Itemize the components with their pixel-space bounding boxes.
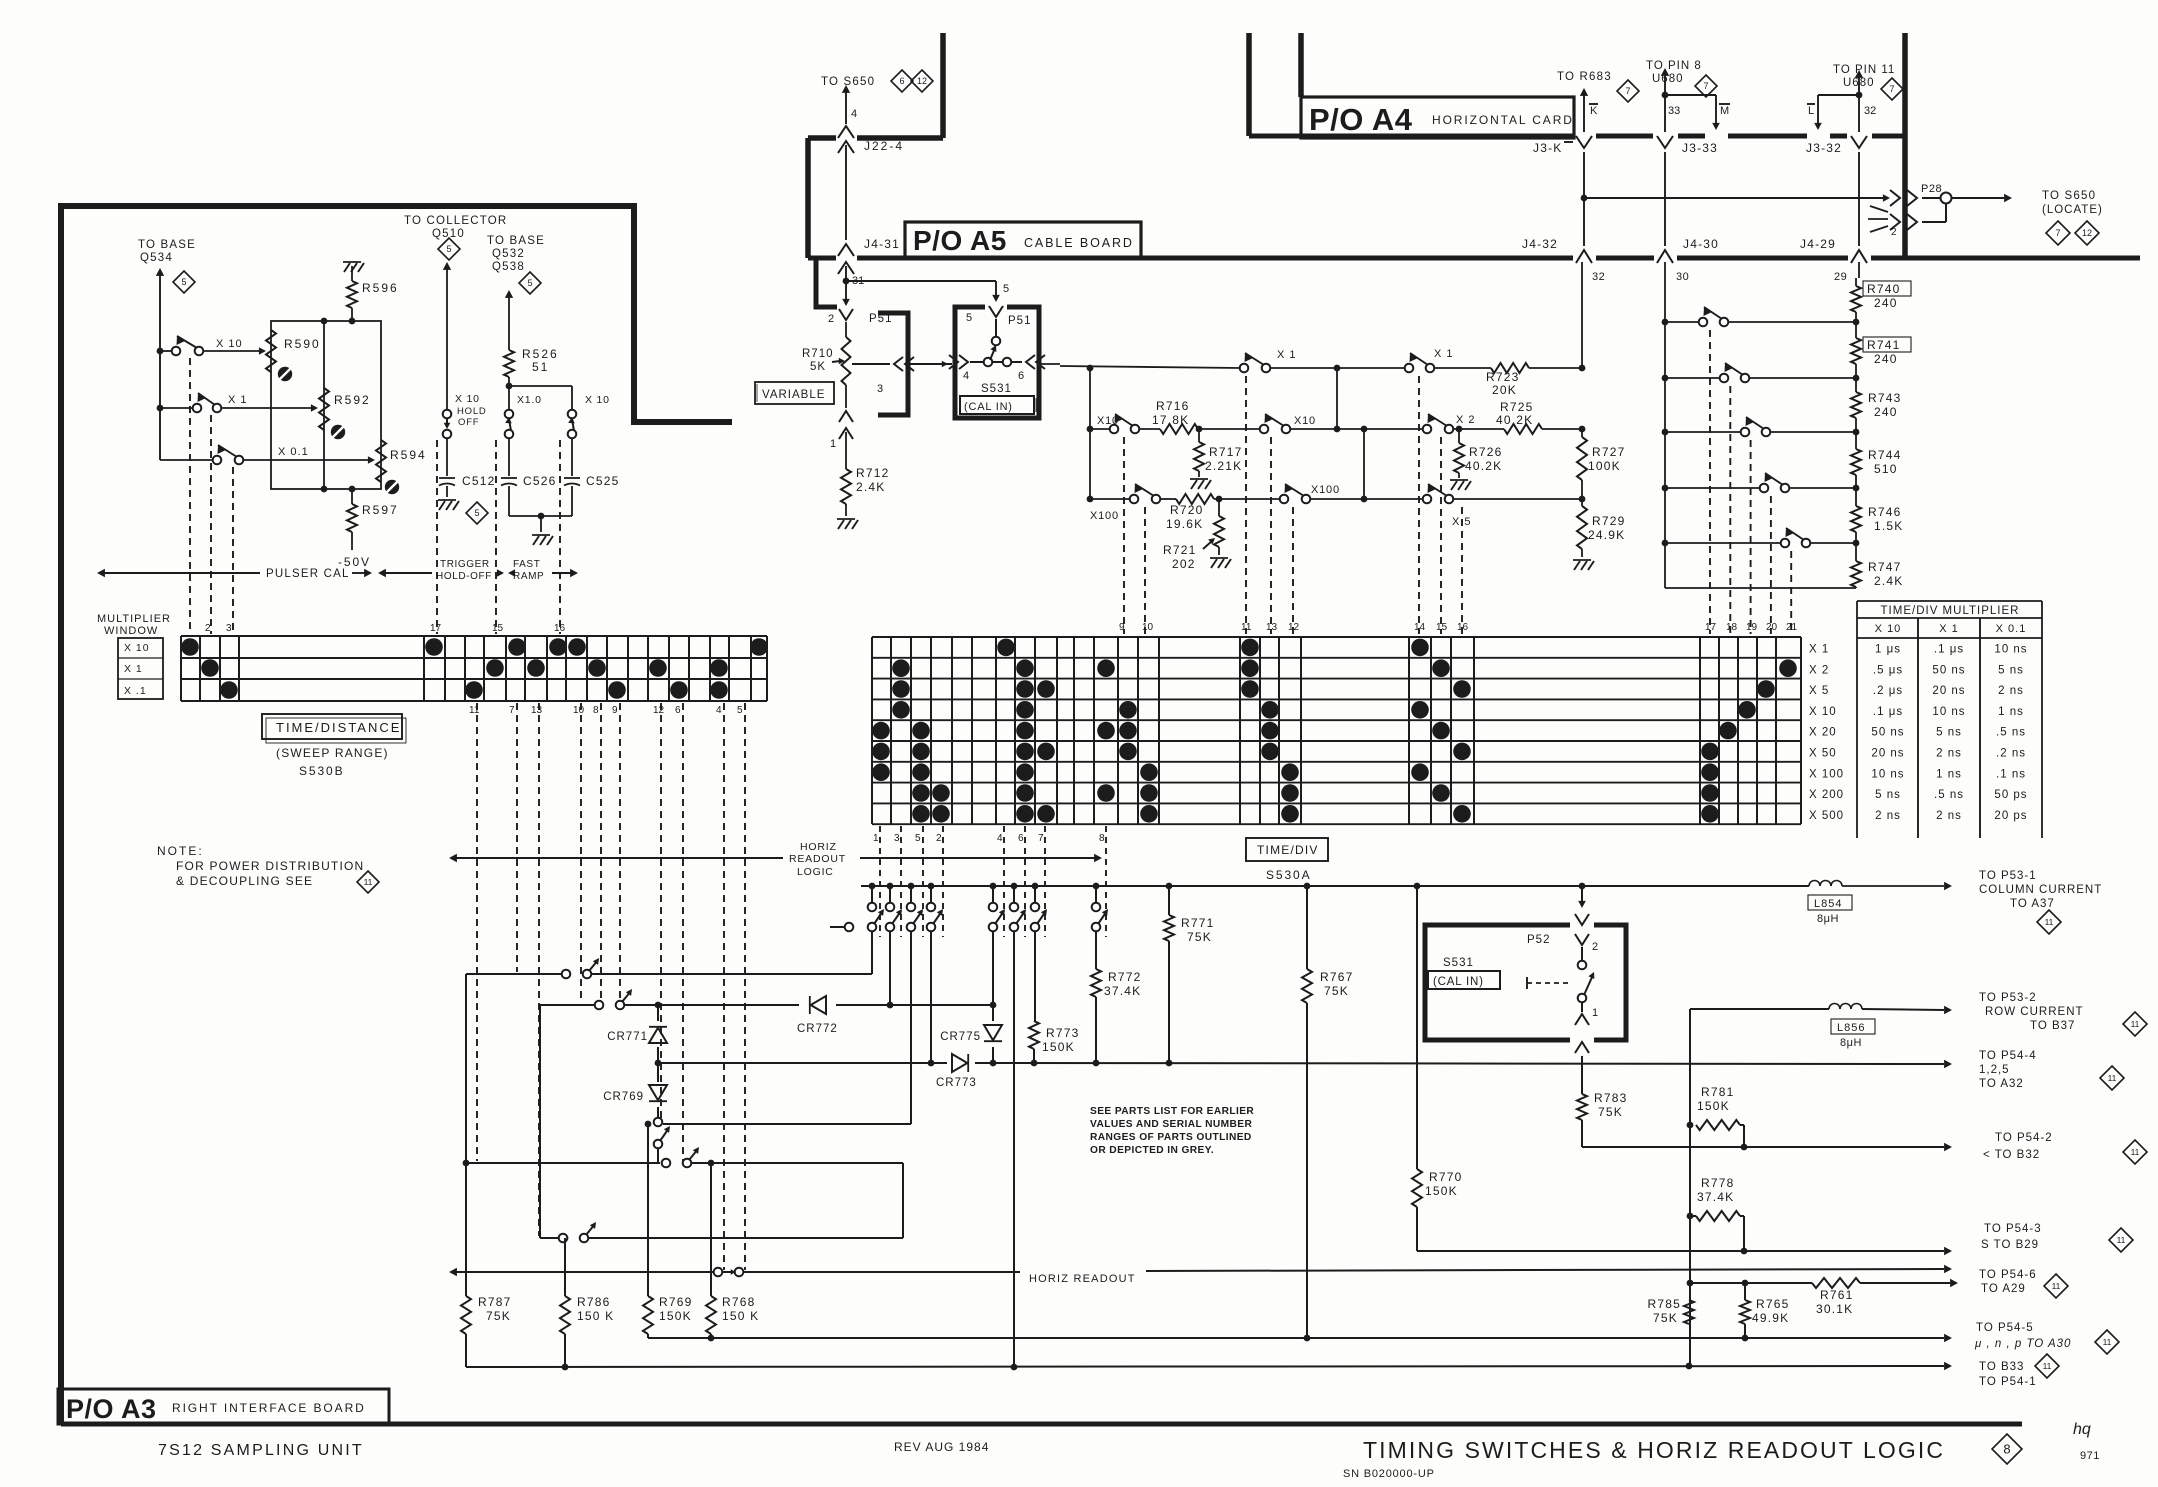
svg-text:20 ns: 20 ns — [1871, 748, 1904, 760]
svg-text:-50V: -50V — [338, 555, 371, 569]
svg-text:7: 7 — [1703, 81, 1708, 91]
svg-text:Q538: Q538 — [492, 261, 525, 273]
ground below C512 — [438, 500, 459, 510]
wire left column CR chain — [655, 1002, 662, 1021]
connector J3-33 — [1657, 136, 1718, 155]
svg-text:.2 ns: .2 ns — [1996, 748, 2026, 760]
wire horiz row B to CR772 — [540, 1002, 996, 1009]
svg-text:5: 5 — [966, 312, 972, 324]
cal in actuator dash — [1527, 977, 1572, 989]
svg-text:100K: 100K — [1588, 459, 1621, 473]
linkage dashes ladder 21 — [1790, 551, 1792, 634]
ground below R721 — [1210, 558, 1231, 568]
destination diamond 11 A30 — [2095, 1330, 2119, 1354]
svg-text:CR771: CR771 — [607, 1031, 648, 1043]
svg-text:TO P54-2: TO P54-2 — [1995, 1132, 2053, 1144]
title TIMING SWITCHES & HORIZ READOUT LOGIC — [1363, 1437, 1945, 1463]
svg-text:21: 21 — [1786, 622, 1798, 633]
wire Q534 rail — [156, 268, 164, 460]
svg-text:16: 16 — [1457, 622, 1469, 633]
resistor R712 — [841, 432, 890, 516]
svg-text:X 2: X 2 — [1456, 414, 1476, 426]
P/O A3 board border left and top — [61, 206, 732, 1424]
connector J4-31 — [838, 237, 900, 274]
resistor R787 — [461, 1295, 512, 1367]
svg-text:R761: R761 — [1820, 1288, 1854, 1302]
note diamond 11 — [357, 871, 379, 893]
svg-text:R744: R744 — [1868, 448, 1902, 462]
wire column current bus — [861, 882, 1952, 890]
svg-text:TO BASE: TO BASE — [138, 239, 196, 251]
svg-text:TO B33: TO B33 — [1979, 1361, 2024, 1373]
resistor R786 — [560, 1295, 614, 1370]
connector S531 pin 6 — [993, 355, 1045, 382]
svg-text:5: 5 — [1003, 283, 1009, 295]
svg-text:150 K: 150 K — [722, 1309, 759, 1323]
switch matrix S530A grid — [872, 637, 1801, 824]
svg-text:J4-32: J4-32 — [1522, 237, 1558, 251]
node TO P54-4 — [1979, 1050, 2037, 1090]
svg-text:20 ns: 20 ns — [1932, 685, 1965, 697]
range arrows fast ramp — [508, 559, 578, 582]
wire J3-33 to J4-30 vertical — [1664, 152, 1666, 246]
svg-text:2: 2 — [205, 623, 211, 634]
svg-text:R721: R721 — [1163, 543, 1197, 557]
potentiometer R592 — [319, 388, 371, 430]
label MULTIPLIER WINDOW — [97, 613, 171, 637]
label SN B020000-UP — [1343, 1468, 1435, 1480]
svg-text:REV AUG 1984: REV AUG 1984 — [894, 1440, 989, 1454]
matrix S530A top column numbers — [1119, 622, 1798, 633]
svg-text:R778: R778 — [1701, 1176, 1735, 1190]
ladder bottom wire — [1665, 587, 1856, 589]
svg-text:.1 μs: .1 μs — [1873, 706, 1903, 718]
svg-text:R526: R526 — [522, 347, 559, 361]
svg-text:P52: P52 — [1527, 934, 1550, 946]
wire col4 CR775 — [992, 931, 994, 1021]
switch X1 row1 left — [1240, 349, 1297, 372]
switch horiz readout — [714, 1268, 744, 1277]
label S531 CAL IN top — [960, 383, 1036, 414]
svg-text:X 10: X 10 — [1875, 623, 1902, 635]
potentiometer R710 — [802, 322, 851, 408]
svg-text:X 1: X 1 — [1939, 623, 1959, 635]
wiper arrow R710 — [832, 358, 845, 365]
svg-text:R740: R740 — [1867, 282, 1901, 296]
svg-text:L854: L854 — [1814, 898, 1842, 910]
svg-text:7S12 SAMPLING UNIT: 7S12 SAMPLING UNIT — [158, 1442, 364, 1459]
svg-text:19.6K: 19.6K — [1166, 517, 1203, 531]
wire R770 column — [1416, 886, 1418, 1169]
label VARIABLE — [755, 382, 834, 404]
linkage dashes ladder 18 — [1729, 386, 1731, 634]
destination diamond 11 B29 — [2109, 1228, 2133, 1252]
svg-text:X 1: X 1 — [228, 394, 248, 406]
resistor R778 — [1690, 1176, 1744, 1251]
resistor R767 — [1302, 969, 1354, 1341]
svg-text:(LOCATE): (LOCATE) — [2042, 204, 2103, 216]
wire Q510 column — [443, 262, 451, 410]
svg-text:20K: 20K — [1492, 383, 1517, 397]
svg-text:9: 9 — [612, 705, 618, 716]
svg-text:.5 μs: .5 μs — [1873, 664, 1903, 676]
P/O A5 cable board border staircase — [808, 33, 943, 258]
node TO BASE Q534 — [138, 239, 196, 264]
wire horiz row y1163 — [463, 1160, 903, 1238]
destination diamond 5 C512 — [466, 502, 488, 524]
svg-text:17: 17 — [1705, 622, 1717, 633]
svg-text:TO R683: TO R683 — [1557, 71, 1612, 83]
svg-text:X 5: X 5 — [1809, 685, 1829, 697]
svg-text:U680: U680 — [1843, 77, 1875, 89]
svg-text:R743: R743 — [1868, 391, 1902, 405]
svg-text:10 ns: 10 ns — [1932, 706, 1965, 718]
svg-text:202: 202 — [1172, 557, 1196, 571]
svg-text:12: 12 — [917, 76, 927, 86]
svg-text:30.1K: 30.1K — [1816, 1302, 1853, 1316]
svg-text:30: 30 — [1676, 271, 1689, 283]
svg-text:R771: R771 — [1181, 916, 1215, 930]
svg-text:COLUMN CURRENT: COLUMN CURRENT — [1979, 884, 2102, 896]
wire pin31 node — [828, 266, 864, 325]
svg-text:TO B37: TO B37 — [2030, 1020, 2075, 1032]
linkage dashes S530A col 8 — [1105, 826, 1107, 937]
svg-text:33: 33 — [1668, 105, 1680, 117]
matrix S530A bottom column numbers — [873, 833, 1105, 844]
resistor R783 — [1577, 1091, 1628, 1147]
multiplier window box — [118, 638, 163, 699]
svg-text:.2 μs: .2 μs — [1873, 685, 1903, 697]
label HORIZ READOUT — [1029, 1273, 1136, 1285]
linkage dashes multiplier 2 — [210, 415, 212, 634]
wire jumper M to J3-33 row — [1665, 95, 1730, 130]
destination diamond 11 B33 — [2035, 1354, 2059, 1378]
switch X10 row2 right — [1260, 414, 1316, 433]
svg-text:510: 510 — [1874, 462, 1898, 476]
svg-text:1: 1 — [1592, 1007, 1598, 1019]
svg-text:X 0.1: X 0.1 — [1996, 623, 2027, 635]
linkage dashes S530B col 10 — [580, 703, 582, 1003]
svg-text:X 10: X 10 — [124, 642, 150, 654]
destination diamond 5 Q532 — [519, 272, 541, 294]
svg-text:4: 4 — [963, 370, 969, 382]
svg-text:C512: C512 — [462, 474, 496, 488]
svg-text:20 ps: 20 ps — [1994, 810, 2027, 822]
svg-text:5: 5 — [181, 277, 186, 287]
node TO P54-6 — [1979, 1269, 2037, 1295]
svg-text:TO P54-6: TO P54-6 — [1979, 1269, 2037, 1281]
switch S531 top box — [955, 307, 1039, 418]
svg-text:50 ps: 50 ps — [1994, 789, 2027, 801]
svg-text:TO P54-5: TO P54-5 — [1976, 1322, 2034, 1334]
svg-text:U680: U680 — [1652, 73, 1684, 85]
svg-text:15: 15 — [1436, 622, 1448, 633]
wire X0.1 to R594 — [244, 456, 375, 464]
wire R769 column — [645, 1121, 652, 1296]
svg-text:5: 5 — [737, 705, 743, 716]
resistor R765 — [1740, 1283, 1790, 1341]
svg-text:OFF: OFF — [458, 417, 479, 428]
adjustment seal R590 — [278, 367, 292, 381]
readout switch column 5 — [907, 886, 923, 931]
svg-text:(SWEEP RANGE): (SWEEP RANGE) — [276, 746, 389, 760]
wire jumper L to J3 row — [1807, 95, 1859, 130]
svg-text:16: 16 — [554, 623, 566, 634]
switch X0.1 pulser — [160, 445, 309, 464]
svg-text:R747: R747 — [1868, 560, 1902, 574]
svg-text:L856: L856 — [1837, 1022, 1865, 1034]
resistor R769 — [643, 1295, 693, 1338]
wire col6 long drop — [1011, 931, 1018, 1370]
ground below R729 — [1573, 560, 1594, 570]
wire branch to S531 pin5 — [846, 281, 1009, 302]
svg-text:P/O A5: P/O A5 — [913, 225, 1007, 256]
switch X1.0 fast ramp — [505, 394, 542, 438]
wire R787 column — [465, 974, 467, 1296]
svg-text:11: 11 — [2131, 1019, 2140, 1029]
destination diamond 11 A37 — [2037, 910, 2061, 934]
svg-text:50 ns: 50 ns — [1932, 664, 1965, 676]
svg-text:HOLD-OFF: HOLD-OFF — [436, 571, 492, 582]
wire J4-29 column 29 — [1834, 262, 1859, 286]
readout switch column 3 — [886, 886, 902, 931]
svg-text:X100: X100 — [1090, 510, 1119, 522]
resistor R729 — [1577, 499, 1626, 557]
svg-text:150K: 150K — [659, 1309, 692, 1323]
linkage dashes 9 — [1123, 437, 1125, 634]
connector J4-32 — [1522, 237, 1592, 263]
node TO P54-5 — [1974, 1322, 2071, 1350]
svg-text:11: 11 — [2103, 1337, 2112, 1347]
svg-text:S530B: S530B — [299, 764, 345, 778]
svg-text:P51: P51 — [869, 313, 892, 325]
destination diamond 12 locate — [2075, 221, 2099, 245]
connector J3-32 — [1806, 136, 1867, 155]
wire locate line to P28 — [1584, 194, 1890, 202]
resistor R773 — [1029, 1021, 1080, 1063]
linkage dashes fast ramp 15 — [495, 440, 497, 634]
svg-text:J4-31: J4-31 — [864, 237, 900, 251]
wire P54-4 line — [658, 1060, 1952, 1069]
svg-text:R594: R594 — [390, 448, 427, 462]
connector J4-30 — [1657, 237, 1719, 263]
destination diamond 5 Q510 — [438, 238, 460, 260]
resistor R744 — [1851, 418, 1902, 476]
node R526 junction — [506, 383, 513, 390]
linkage dashes S530B col 13 — [538, 703, 540, 1236]
P/O A3 label box — [58, 1389, 389, 1424]
svg-text:150 K: 150 K — [577, 1309, 614, 1323]
svg-text:X100: X100 — [1311, 484, 1340, 496]
svg-text:.5 ns: .5 ns — [1934, 789, 1964, 801]
destination diamond 11 B37 — [2123, 1012, 2147, 1036]
svg-text:R725: R725 — [1500, 400, 1534, 414]
svg-text:READOUT: READOUT — [789, 853, 846, 865]
svg-text:4: 4 — [997, 833, 1003, 844]
svg-text:TIME/DIV: TIME/DIV — [1257, 843, 1319, 857]
switch X2 row2 — [1423, 414, 1476, 433]
wire col5 drop — [910, 931, 912, 1124]
svg-text:150K: 150K — [1042, 1040, 1075, 1054]
linkage dashes ladder 17 — [1709, 330, 1711, 634]
svg-text:TO A29: TO A29 — [1981, 1283, 2026, 1295]
ground below C526 C525 — [532, 535, 553, 545]
potentiometer R594 — [376, 440, 427, 482]
resistor R526 — [504, 290, 559, 410]
svg-text:1 ns: 1 ns — [1936, 768, 1962, 780]
svg-text:TIME/DISTANCE: TIME/DISTANCE — [276, 720, 401, 735]
svg-text:VALUES AND SERIAL NUMBER: VALUES AND SERIAL NUMBER — [1090, 1119, 1252, 1130]
linkage dashes S530B col 7 — [516, 703, 518, 972]
svg-text:11: 11 — [2043, 1361, 2052, 1371]
svg-text:X1.0: X1.0 — [517, 394, 542, 406]
svg-text:TO A37: TO A37 — [2010, 898, 2055, 910]
switch X5 row3 — [1423, 484, 1472, 528]
wire row3 — [1090, 496, 1585, 503]
svg-text:6: 6 — [1018, 833, 1024, 844]
destination diamond 5 Q534 — [173, 271, 195, 293]
svg-text:150K: 150K — [1697, 1099, 1730, 1113]
svg-text:X 1: X 1 — [1277, 349, 1297, 361]
svg-text:20: 20 — [1766, 622, 1778, 633]
svg-text:17: 17 — [430, 623, 442, 634]
svg-text:SN B020000-UP: SN B020000-UP — [1343, 1468, 1435, 1480]
svg-text:S531: S531 — [1443, 957, 1474, 969]
switch matrix S530B grid — [181, 636, 767, 701]
svg-text:X 10: X 10 — [1809, 706, 1837, 718]
svg-text:1.5K: 1.5K — [1874, 519, 1904, 533]
svg-text:10: 10 — [573, 705, 585, 716]
ground above R596 — [343, 262, 364, 272]
linkage dashes S530B col 6 — [682, 703, 684, 1161]
adjustment seal R592 — [331, 425, 345, 439]
svg-text:8μH: 8μH — [1817, 913, 1839, 925]
svg-text:11: 11 — [364, 877, 373, 887]
resistor R770 — [1412, 1169, 1463, 1251]
svg-text:75K: 75K — [1187, 930, 1212, 944]
connector P28 chevrons — [1890, 190, 1917, 230]
svg-text:P28: P28 — [1921, 183, 1942, 195]
resistor R761 — [1812, 1278, 1860, 1316]
wire row2 — [1090, 426, 1585, 433]
svg-text:6: 6 — [1018, 370, 1024, 382]
connector P51 pin 1 — [830, 411, 853, 450]
P/O A4 board edge J3 line — [1249, 134, 1905, 139]
svg-text:SEE PARTS LIST FOR EARLIER: SEE PARTS LIST FOR EARLIER — [1090, 1106, 1254, 1117]
svg-text:P51: P51 — [1008, 315, 1031, 327]
svg-text:7: 7 — [2055, 228, 2060, 238]
svg-text:R785: R785 — [1648, 1297, 1682, 1311]
svg-text:10 ns: 10 ns — [1871, 768, 1904, 780]
svg-text:32: 32 — [1592, 271, 1605, 283]
linkage dashes 13 — [1270, 437, 1272, 634]
resistor R747 — [1851, 532, 1904, 588]
diode CR773 — [658, 1054, 977, 1089]
svg-text:R787: R787 — [478, 1295, 512, 1309]
svg-text:2: 2 — [936, 833, 942, 844]
linkage dashes 16 — [1461, 507, 1463, 634]
connector P51 pin 5 — [966, 306, 1031, 327]
svg-text:TO P53-2: TO P53-2 — [1979, 992, 2037, 1004]
svg-text:32: 32 — [1864, 105, 1876, 117]
wire bottom row y1338 — [648, 1334, 1952, 1342]
svg-text:11: 11 — [2117, 1235, 2126, 1245]
svg-text:NOTE:: NOTE: — [157, 844, 204, 858]
svg-text:12: 12 — [1288, 622, 1300, 633]
switch S531 lower box — [1425, 925, 1626, 1040]
resistor R720 — [1166, 494, 1214, 531]
P/O A5 board edge long line — [808, 256, 2140, 261]
resistor R781 — [1696, 1085, 1744, 1147]
wire R768 column — [708, 1160, 715, 1296]
svg-text:R767: R767 — [1320, 970, 1354, 984]
svg-text:X10: X10 — [1294, 415, 1316, 427]
svg-text:5K: 5K — [810, 361, 826, 373]
label S531 CAL IN lower — [1428, 957, 1500, 989]
dashes horiz readout switch — [724, 703, 745, 1270]
linkage dashes S530A cols 4 6 7 — [1004, 826, 1045, 937]
node TO P53-2 ROW CURRENT — [1979, 992, 2084, 1032]
linkage dashes multiplier 3 — [232, 467, 234, 634]
connector P51 pin 3 — [852, 357, 914, 395]
svg-text:37.4K: 37.4K — [1104, 984, 1141, 998]
node TO COLLECTOR Q510 — [404, 215, 507, 240]
destination diamond 11 A32 — [2100, 1066, 2124, 1090]
label S530A — [1266, 868, 1312, 882]
plug P28 pin circle — [1921, 183, 1952, 204]
svg-text:TO PIN 11: TO PIN 11 — [1833, 64, 1895, 76]
svg-text:TO S650: TO S650 — [2042, 190, 2096, 202]
wire col7 R773 — [1034, 931, 1036, 1021]
wire TO P53-2 row current — [1690, 1006, 1952, 1014]
wire R767 column — [1306, 886, 1308, 969]
resistor R721 — [1163, 499, 1224, 571]
switch X100 row3 left — [1090, 484, 1160, 522]
wire col8 R772 — [1095, 931, 1097, 969]
svg-text:R772: R772 — [1108, 970, 1142, 984]
svg-text:R741: R741 — [1867, 338, 1901, 352]
svg-text:1: 1 — [830, 438, 836, 450]
svg-text:TO P54-4: TO P54-4 — [1979, 1050, 2037, 1062]
svg-text:CR772: CR772 — [797, 1023, 838, 1035]
switch S531 cal in lower contacts — [1578, 947, 1595, 1002]
svg-text:11: 11 — [2052, 1281, 2061, 1291]
ladder switch row 19 — [1662, 417, 1860, 436]
label HORIZ READOUT LOGIC with arrow — [449, 841, 1102, 878]
svg-text:CABLE BOARD: CABLE BOARD — [1024, 236, 1134, 250]
diode CR769 — [603, 1063, 667, 1118]
matrix S530B cam dots — [181, 638, 768, 699]
svg-text:R597: R597 — [362, 503, 399, 517]
wire R786 column — [564, 1238, 566, 1296]
svg-text:2 ns: 2 ns — [1936, 810, 1962, 822]
range arrows trigger hold-off — [378, 559, 504, 582]
wire mid column link — [1334, 368, 1368, 502]
svg-text:TO PIN 8: TO PIN 8 — [1646, 60, 1702, 72]
readout switch column 7 — [1031, 886, 1047, 931]
ladder switch row 21 — [1662, 528, 1860, 547]
resistor R723 — [1486, 363, 1529, 397]
svg-text:HORIZ: HORIZ — [800, 841, 837, 853]
svg-text:CR769: CR769 — [603, 1091, 644, 1103]
svg-text:R592: R592 — [334, 393, 371, 407]
adjustment seal R594 — [385, 480, 399, 494]
destination diamond 7 U680 pin8 — [1695, 75, 1717, 97]
svg-text:X 10: X 10 — [585, 394, 610, 406]
resistor R771 — [1164, 886, 1215, 1063]
svg-text:R710: R710 — [802, 348, 834, 360]
svg-text:2 ns: 2 ns — [1936, 748, 1962, 760]
